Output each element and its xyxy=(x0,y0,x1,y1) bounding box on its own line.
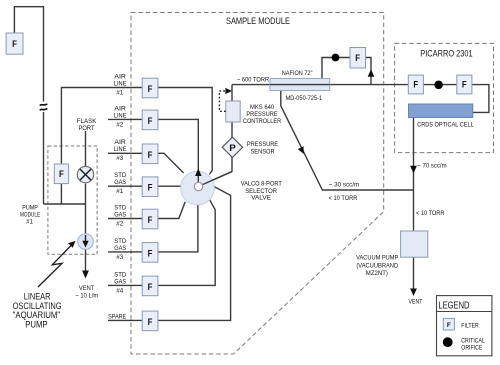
arrow up valve common xyxy=(195,169,202,177)
vacuum pump box xyxy=(401,231,428,257)
svg-text:PRESSURE: PRESSURE xyxy=(247,141,279,148)
vent arrow pump module xyxy=(82,271,89,279)
svg-text:LINE: LINE xyxy=(114,112,127,119)
wire picarro filter 2 to cell xyxy=(472,85,489,113)
filter F air line #1 xyxy=(142,78,158,98)
wire valve common to pressure sensor xyxy=(203,157,232,185)
svg-text:F: F xyxy=(148,247,153,258)
legend filter symbol xyxy=(443,318,454,330)
svg-text:~ 600 TORR: ~ 600 TORR xyxy=(237,76,269,83)
svg-text:#2: #2 xyxy=(116,121,123,128)
svg-text:STD: STD xyxy=(114,271,126,278)
wire std gas #1 to valve xyxy=(158,185,181,187)
label vacuum pump xyxy=(356,255,399,277)
pressure sensor P diamond xyxy=(222,137,242,157)
svg-text:SAMPLE MODULE: SAMPLE MODULE xyxy=(226,16,290,26)
picarro filter F 2 xyxy=(457,75,472,94)
svg-text:F: F xyxy=(148,214,153,225)
valco 8-port selector valve xyxy=(181,170,232,205)
svg-text:GAS: GAS xyxy=(114,245,127,252)
wire pump circle to vent xyxy=(85,249,87,272)
arrow up purge return xyxy=(368,69,375,77)
svg-text:STD: STD xyxy=(114,238,126,245)
label air line #3 xyxy=(114,139,127,162)
filter F std gas #1 xyxy=(142,177,158,197)
svg-text:F: F xyxy=(462,79,467,90)
svg-text:FLASK: FLASK xyxy=(77,118,97,125)
pump module #1 dashed box xyxy=(48,146,97,254)
filter F pump module xyxy=(54,164,68,184)
wire std gas #2 stub xyxy=(108,218,142,220)
label air line #1 xyxy=(114,73,127,96)
flask port valve (circle-X) xyxy=(77,166,93,182)
filter F std gas #4 xyxy=(142,276,158,296)
svg-text:PUMP: PUMP xyxy=(22,204,38,211)
wire std gas #1 stub xyxy=(108,185,142,187)
legend critical orifice symbol xyxy=(443,337,453,347)
aquarium pump circle xyxy=(78,234,94,250)
svg-text:AIR: AIR xyxy=(114,73,126,80)
wire std gas #2 to valve xyxy=(158,202,185,219)
svg-text:(VACUUBRAND: (VACUUBRAND xyxy=(356,262,398,269)
label valco 8-port selector valve xyxy=(241,181,282,202)
svg-text:VACUUM PUMP: VACUUM PUMP xyxy=(356,255,399,262)
sample module dashed boundary xyxy=(131,13,384,355)
svg-text:F: F xyxy=(413,79,418,90)
wire nafion purge takeoff xyxy=(366,58,372,85)
svg-text:F: F xyxy=(148,115,153,126)
wire main sample line ~600 TORR xyxy=(232,84,409,86)
svg-text:LINEAR: LINEAR xyxy=(24,291,51,301)
svg-text:F: F xyxy=(12,38,17,49)
svg-text:F: F xyxy=(148,182,153,193)
wire spare stub xyxy=(108,319,142,321)
svg-text:PORT: PORT xyxy=(79,125,95,132)
svg-text:AIR: AIR xyxy=(114,139,126,146)
label pump module #1 xyxy=(20,204,41,225)
label vent pump module xyxy=(75,285,98,300)
wire air line #2 to valve common xyxy=(158,119,198,182)
svg-text:#1: #1 xyxy=(26,219,33,226)
svg-text:F: F xyxy=(59,168,64,179)
purge filter F xyxy=(350,48,366,69)
label std gas #4 xyxy=(114,271,127,294)
label std gas #1 xyxy=(114,172,127,195)
filter F spare xyxy=(142,311,158,331)
arrow on waste diagonal xyxy=(298,146,304,154)
svg-text:LEGEND: LEGEND xyxy=(438,300,469,311)
filter F inlet top-left xyxy=(6,33,23,54)
wire air line #2 stub xyxy=(108,118,142,120)
svg-text:LINE: LINE xyxy=(114,146,127,153)
filter F std gas #2 xyxy=(142,209,158,229)
svg-text:#4: #4 xyxy=(116,287,123,294)
PICARRO 2301 dashed box xyxy=(395,43,494,152)
MKS control dotted line xyxy=(219,91,225,111)
svg-text:VENT: VENT xyxy=(79,285,94,292)
CRDS optical cell xyxy=(409,104,473,118)
svg-text:F: F xyxy=(447,322,451,329)
svg-text:#3: #3 xyxy=(116,155,123,162)
svg-text:GAS: GAS xyxy=(114,179,127,186)
svg-text:F: F xyxy=(148,83,153,94)
svg-text:#1: #1 xyxy=(116,188,123,195)
svg-text:PUMP: PUMP xyxy=(25,320,47,330)
svg-text:GAS: GAS xyxy=(114,278,127,285)
svg-text:#2: #2 xyxy=(116,220,123,227)
svg-text:CONTROLLER: CONTROLLER xyxy=(243,118,281,125)
svg-text:FILTER: FILTER xyxy=(461,322,479,329)
break symbol on left line xyxy=(40,104,48,110)
svg-text:SPARE: SPARE xyxy=(108,314,127,321)
arrow right control line xyxy=(225,88,232,94)
label std gas #3 xyxy=(114,238,127,261)
svg-text:SENSOR: SENSOR xyxy=(251,149,275,156)
wire air line #1 to selector valve xyxy=(158,88,212,175)
wire air line #3 to valve xyxy=(158,153,184,173)
svg-text:F: F xyxy=(355,52,360,63)
svg-text:~ 70 scc/m: ~ 70 scc/m xyxy=(417,163,447,170)
picarro critical orifice xyxy=(434,81,443,90)
MKS 640 pressure controller box xyxy=(226,101,240,122)
vent arrow bottom right xyxy=(410,289,417,297)
wire pressure sensor to MKS controller xyxy=(231,122,233,138)
wire nafion waste diagonal xyxy=(281,91,414,191)
svg-text:NAFION 72": NAFION 72" xyxy=(282,70,313,77)
svg-text:< 10 TORR: < 10 TORR xyxy=(329,195,358,202)
label std gas #2 xyxy=(114,204,127,227)
wire cell exhaust down to vacuum pump xyxy=(413,118,415,232)
valve common port circle xyxy=(194,182,202,190)
wire picarro filter to orifice to filter xyxy=(423,84,456,86)
wire valve X to pump circle xyxy=(85,184,87,241)
svg-text:MKS 640: MKS 640 xyxy=(250,104,274,111)
svg-text:#1: #1 xyxy=(116,89,123,96)
svg-text:VENT: VENT xyxy=(409,299,423,306)
legend box xyxy=(437,296,492,356)
wire purge filter to orifice to nafion top xyxy=(322,58,350,79)
svg-text:< 10 TORR: < 10 TORR xyxy=(416,210,445,217)
lightning annotation arrow to pump xyxy=(38,245,72,287)
svg-text:MODULE: MODULE xyxy=(20,212,41,219)
svg-text:VALCO 8-PORT: VALCO 8-PORT xyxy=(241,181,282,188)
svg-text:LINE: LINE xyxy=(114,80,127,87)
svg-text:#3: #3 xyxy=(116,254,123,261)
wire pump module manifold xyxy=(44,203,86,205)
critical orifice purge xyxy=(332,54,340,62)
label pressure sensor xyxy=(247,141,279,156)
svg-text:F: F xyxy=(148,281,153,292)
label MKS 640 pressure controller xyxy=(243,104,281,125)
main line over nafion xyxy=(270,84,330,86)
svg-text:F: F xyxy=(148,149,153,160)
filter F air line #3 xyxy=(142,144,158,164)
picarro filter F 1 xyxy=(408,75,423,94)
svg-text:ORIFICE: ORIFICE xyxy=(461,345,482,352)
filter F air line #2 xyxy=(142,110,158,130)
svg-text:PRESSURE: PRESSURE xyxy=(246,111,278,118)
svg-text:VALVE: VALVE xyxy=(251,195,271,202)
label linear oscillating aquarium pump xyxy=(13,291,62,329)
svg-text:GAS: GAS xyxy=(114,211,127,218)
wire air line #1 left run down to pump filter xyxy=(61,88,142,165)
wire pump filter to manifold xyxy=(60,184,62,204)
svg-text:MD-050-725-1: MD-050-725-1 xyxy=(286,95,323,102)
wire std gas #4 to valve xyxy=(158,199,215,285)
svg-text:~ 10 L/m: ~ 10 L/m xyxy=(75,293,98,300)
label air line #2 xyxy=(114,105,127,128)
label flask port xyxy=(77,118,97,132)
svg-text:P: P xyxy=(229,142,236,153)
svg-text:~ 30 scc/m: ~ 30 scc/m xyxy=(329,181,360,188)
wire std gas #4 stub xyxy=(108,284,142,286)
nafion dryer MD-050-725-1 xyxy=(270,79,330,91)
svg-text:CRITICAL: CRITICAL xyxy=(461,337,485,344)
svg-text:"AQUARIUM": "AQUARIUM" xyxy=(13,310,61,320)
svg-text:F: F xyxy=(148,316,153,327)
wire flask port to valve X xyxy=(85,131,87,166)
arrow down above vacuum junction xyxy=(410,166,417,174)
wire air line #3 stub xyxy=(108,152,142,154)
wire std gas #3 to valve xyxy=(158,205,198,252)
filter F std gas #3 xyxy=(142,243,158,263)
wire vacuum pump to vent xyxy=(413,257,415,291)
wire common diagonal over circle xyxy=(203,172,232,185)
wire inlet F to pump module left branch xyxy=(14,7,43,102)
svg-text:STD: STD xyxy=(114,204,126,211)
wire MKS controller to main line xyxy=(231,85,233,101)
wire left branch below break xyxy=(43,112,45,204)
svg-text:MZ2NT): MZ2NT) xyxy=(366,270,388,277)
svg-text:STD: STD xyxy=(114,172,126,179)
wire std gas #3 stub xyxy=(108,251,142,253)
svg-text:AIR: AIR xyxy=(114,105,126,112)
wire valve common over circle xyxy=(197,170,199,183)
svg-text:CRDS OPTICAL CELL: CRDS OPTICAL CELL xyxy=(417,122,474,129)
svg-text:PICARRO 2301: PICARRO 2301 xyxy=(420,48,472,58)
wire spare to valve xyxy=(158,187,231,321)
